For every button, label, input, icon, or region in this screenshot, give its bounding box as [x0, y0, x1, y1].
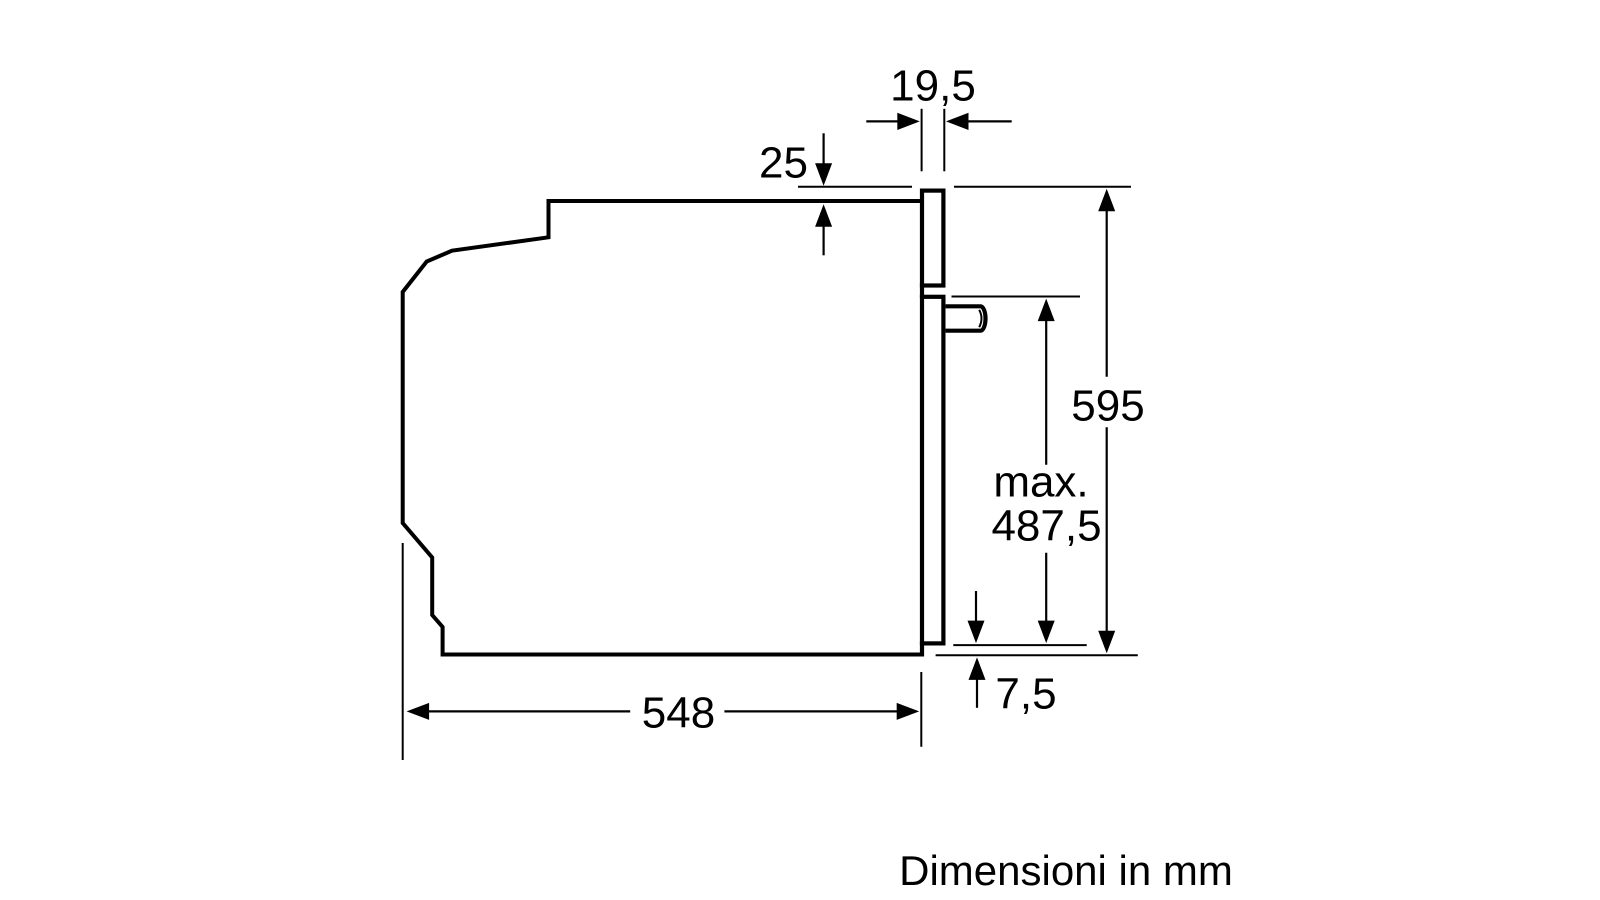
svg-text:7,5: 7,5 [995, 670, 1056, 719]
svg-text:Dimensioni in mm: Dimensioni in mm [899, 847, 1233, 894]
svg-text:487,5: 487,5 [991, 502, 1101, 551]
svg-text:548: 548 [642, 689, 715, 738]
svg-text:max.: max. [993, 458, 1088, 507]
svg-text:25: 25 [759, 139, 808, 188]
svg-text:595: 595 [1071, 382, 1144, 431]
svg-text:19,5: 19,5 [890, 62, 976, 111]
